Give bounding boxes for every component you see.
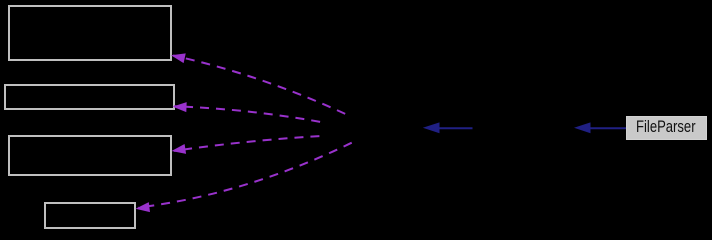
node box 4 (bottom, label hidden) (45, 203, 135, 228)
node box 2 (label hidden) (5, 85, 174, 109)
inheritance edge (from FileParser, navy) (574, 122, 626, 133)
dashed usage edge to box 4 (135, 142, 354, 214)
FileParser node (627, 117, 707, 140)
node box 1 (top-left, label hidden) (9, 6, 171, 60)
dashed usage edge to box 2 (172, 102, 327, 123)
node box 3 (label hidden) (9, 136, 171, 175)
dashed usage edge to box 1 (170, 50, 347, 114)
svg-text:FileParser: FileParser (636, 118, 696, 136)
dashed usage edge to box 3 (171, 136, 326, 156)
inheritance edge (middle, navy) (423, 122, 473, 133)
